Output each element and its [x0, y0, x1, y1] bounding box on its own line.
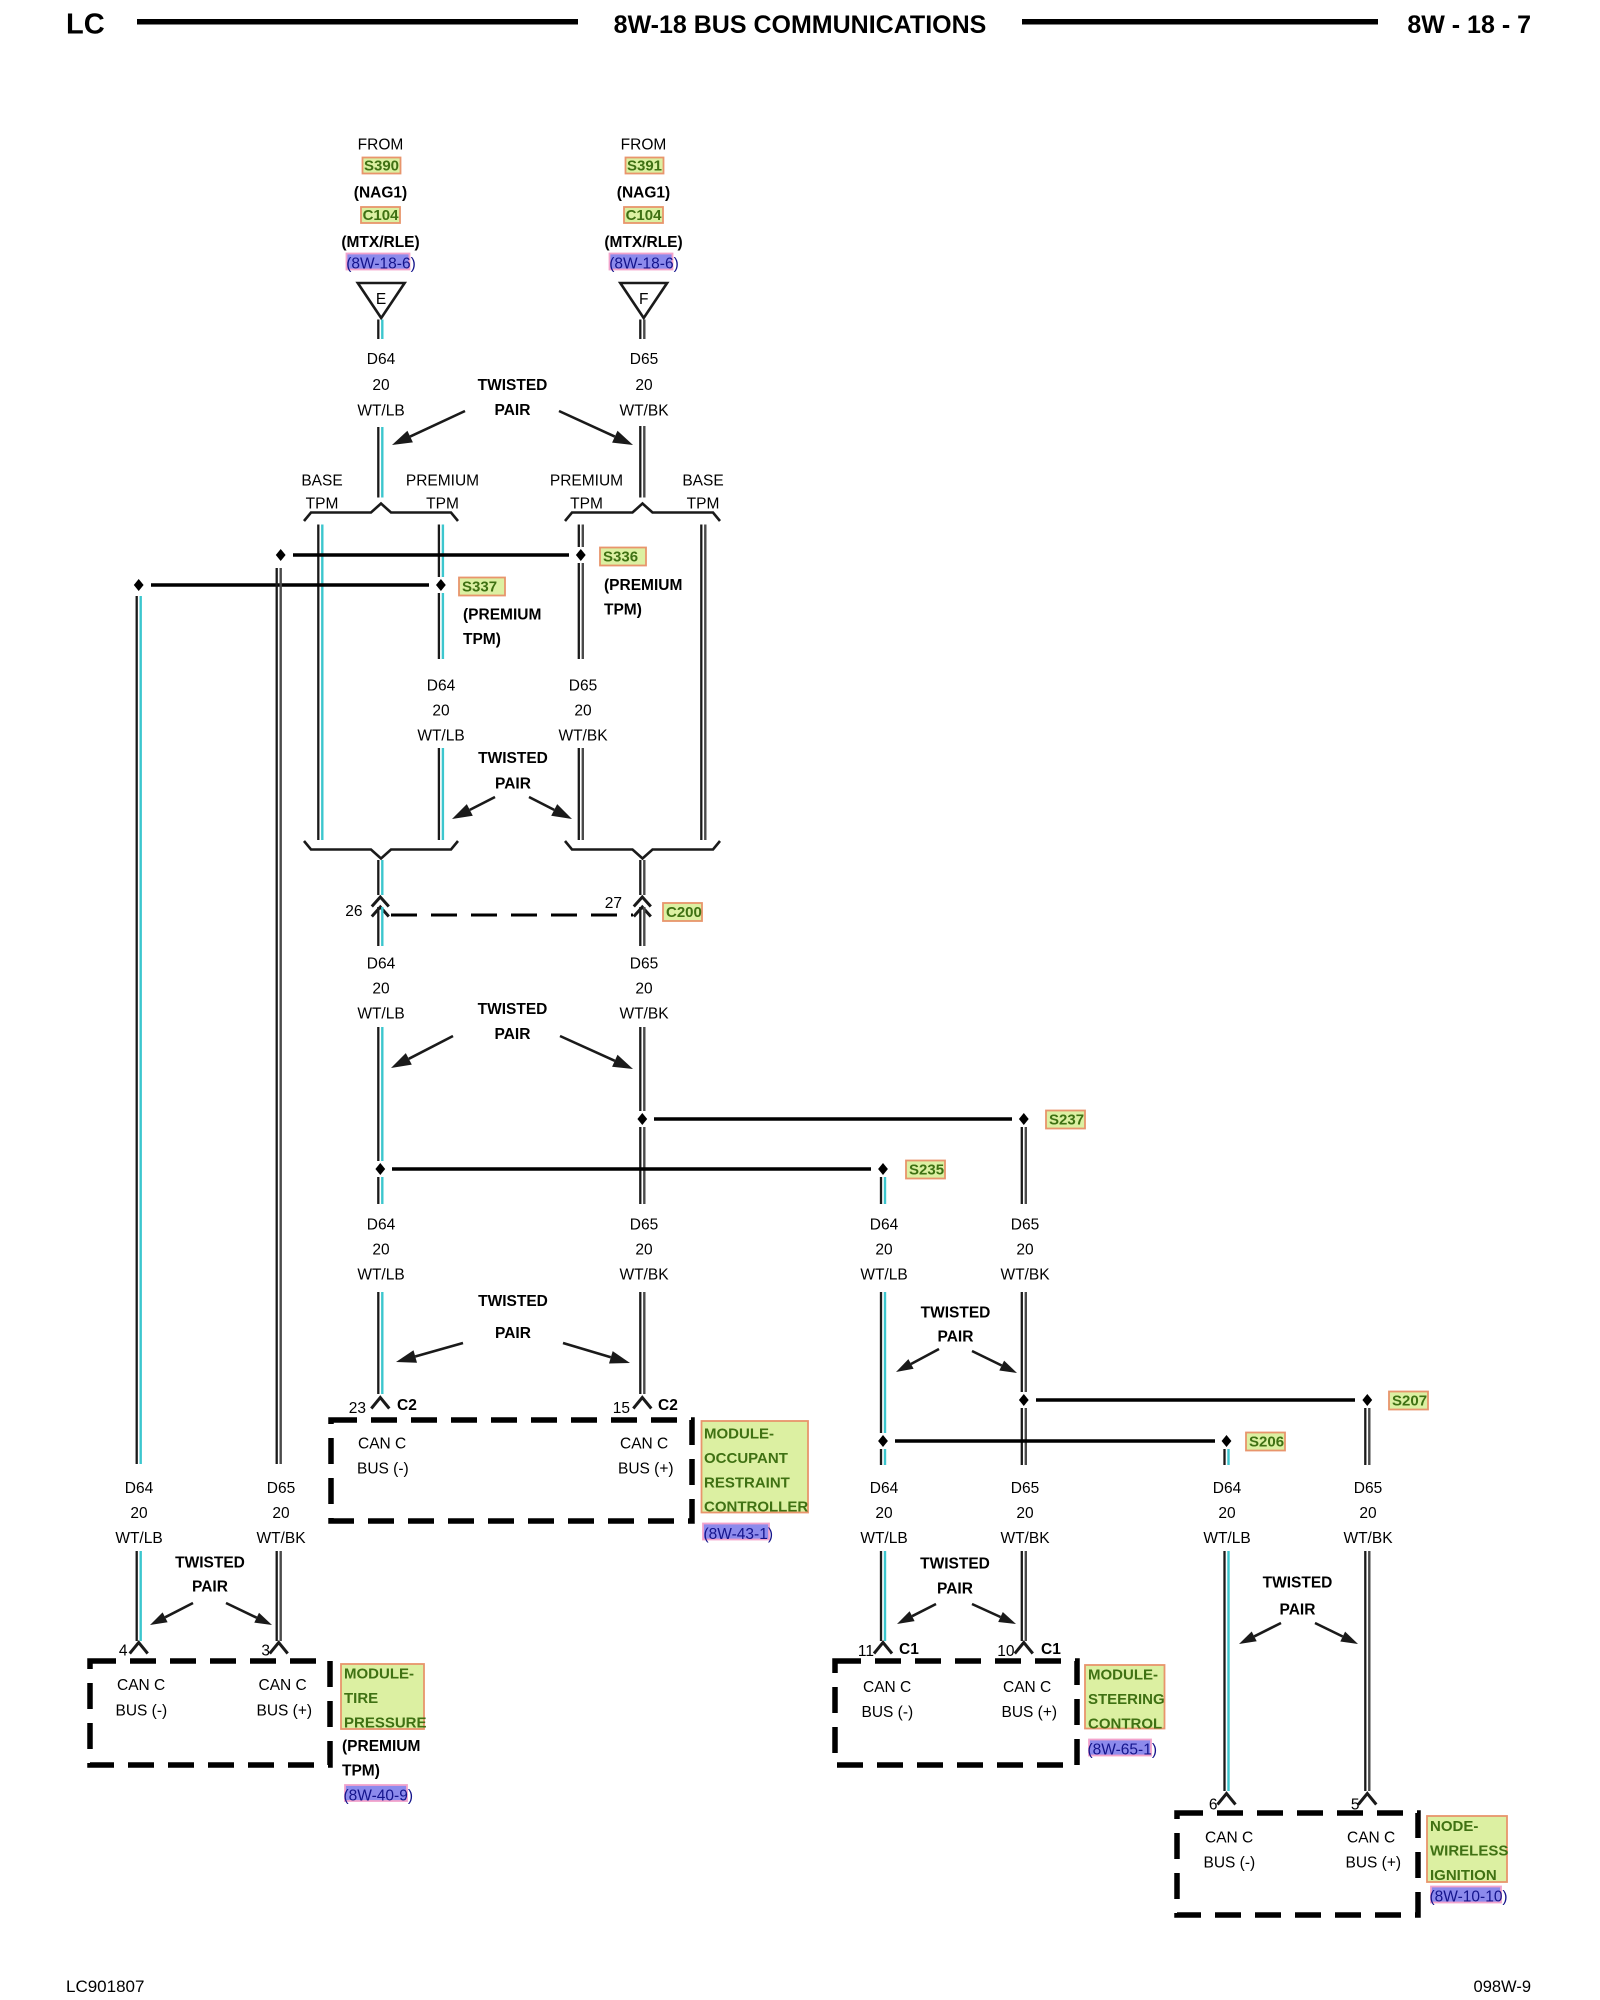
svg-text:D65: D65	[630, 1217, 658, 1234]
svg-text:WT/BK: WT/BK	[1343, 1530, 1393, 1547]
svg-text:23: 23	[349, 1400, 366, 1417]
splice dot S207 right end	[1362, 1394, 1372, 1406]
wire label D65 20 WT/BK (tire)	[256, 1480, 306, 1547]
splice dot S337 on premium wire	[436, 579, 446, 591]
svg-text:S207: S207	[1392, 1393, 1427, 1410]
svg-text:D65: D65	[630, 351, 658, 368]
svg-text:PRESSURE: PRESSURE	[344, 1714, 427, 1731]
splice dot S237 right end	[1019, 1113, 1029, 1125]
svg-text:20: 20	[1016, 1505, 1034, 1522]
pin 23 terminal	[371, 1398, 389, 1409]
twisted pair arrow 3 right	[560, 1036, 633, 1069]
wire D65 stub below triangle F	[640, 320, 644, 340]
svg-text:D65: D65	[1011, 1480, 1039, 1497]
svg-text:TPM): TPM)	[604, 602, 642, 619]
svg-text:(PREMIUM: (PREMIUM	[463, 607, 541, 624]
svg-text:BUS (-): BUS (-)	[357, 1461, 409, 1478]
svg-text:BASE: BASE	[301, 473, 342, 490]
module box steering control	[835, 1661, 1077, 1765]
splice line S237	[654, 1117, 1012, 1121]
module box tire pressure	[90, 1661, 330, 1765]
wire premium TPM right (D65 branch)	[579, 525, 583, 841]
svg-text:S337: S337	[462, 579, 497, 596]
svg-text:WT/BK: WT/BK	[256, 1530, 306, 1547]
svg-text:TPM: TPM	[306, 496, 339, 513]
svg-text:WT/LB: WT/LB	[357, 1006, 404, 1023]
svg-text:WT/LB: WT/LB	[357, 403, 404, 420]
splice line S235	[392, 1167, 871, 1171]
wire label D65 20 WT/BK (occupant)	[619, 1217, 669, 1284]
svg-text:BUS (-): BUS (-)	[862, 1704, 914, 1721]
brace TPM merge left	[304, 841, 458, 859]
svg-text:TWISTED: TWISTED	[478, 1001, 548, 1018]
svg-text:WT/BK: WT/BK	[1000, 1267, 1050, 1284]
wire label D64 20 WT/LB (steering)	[860, 1217, 907, 1284]
wire label D65 20 WT/BK (top)	[619, 351, 669, 420]
svg-text:C104: C104	[363, 207, 400, 224]
svg-text:WT/LB: WT/LB	[417, 728, 464, 745]
svg-text:TIRE: TIRE	[344, 1690, 378, 1707]
svg-text:(PREMIUM: (PREMIUM	[342, 1738, 420, 1755]
svg-text:(NAG1): (NAG1)	[354, 185, 407, 202]
svg-text:(MTX/RLE): (MTX/RLE)	[341, 234, 419, 251]
wire label D65 20 WT/BK (wireless)	[1343, 1480, 1393, 1547]
wire D64 segment to pin 23	[378, 1292, 382, 1394]
svg-text:S390: S390	[364, 158, 399, 175]
page ref label (8W-18-6) (E)	[346, 254, 415, 273]
svg-text:STEERING: STEERING	[1088, 1691, 1165, 1708]
svg-text:20: 20	[372, 377, 390, 394]
svg-text:BUS (-): BUS (-)	[116, 1703, 168, 1720]
svg-text:PAIR: PAIR	[495, 402, 531, 419]
wire D64 segment below C200	[378, 907, 382, 946]
splice dot S206 right end	[1222, 1435, 1232, 1447]
svg-text:BUS (+): BUS (+)	[257, 1703, 313, 1720]
svg-text:20: 20	[372, 1242, 390, 1259]
svg-text:BUS (+): BUS (+)	[1002, 1704, 1058, 1721]
svg-text:11: 11	[858, 1643, 874, 1660]
pin 3 terminal	[270, 1643, 288, 1654]
svg-text:RESTRAINT: RESTRAINT	[704, 1474, 790, 1491]
splice dot S206 on D64 steering wire	[878, 1435, 888, 1447]
wire D65 segment to TPM brace	[640, 426, 644, 498]
pin 4 terminal	[130, 1643, 148, 1654]
svg-text:TPM: TPM	[687, 496, 720, 513]
off-page connector triangle E	[358, 283, 405, 318]
svg-text:D64: D64	[870, 1217, 899, 1234]
svg-text:TWISTED: TWISTED	[478, 1293, 548, 1310]
splice line S206	[895, 1439, 1215, 1443]
svg-text:WT/BK: WT/BK	[619, 403, 669, 420]
svg-text:C2: C2	[397, 1397, 417, 1414]
svg-text:C2: C2	[658, 1397, 678, 1414]
svg-text:20: 20	[635, 377, 653, 394]
connector label C104 (F)	[624, 207, 663, 224]
wire D65 wireless segment below S207	[1365, 1408, 1369, 1465]
svg-text:WT/LB: WT/LB	[115, 1530, 162, 1547]
svg-text:20: 20	[1359, 1505, 1377, 1522]
svg-text:PAIR: PAIR	[495, 1026, 531, 1043]
svg-text:(8W-65-1): (8W-65-1)	[1088, 1742, 1157, 1759]
wire label D64 20 WT/LB (steer low)	[860, 1480, 907, 1547]
svg-text:LC901807: LC901807	[66, 1977, 144, 1996]
svg-text:20: 20	[1016, 1242, 1034, 1259]
svg-text:BASE: BASE	[682, 473, 723, 490]
svg-text:PAIR: PAIR	[1280, 1602, 1316, 1619]
svg-text:WT/BK: WT/BK	[619, 1006, 669, 1023]
splice dot S235 on D64 center wire	[375, 1163, 385, 1175]
svg-text:4: 4	[119, 1643, 128, 1660]
off-page connector triangle F	[620, 283, 667, 318]
wire D65 segment to S237	[640, 1027, 644, 1204]
label BASE TPM right	[682, 473, 723, 513]
svg-text:10: 10	[997, 1643, 1015, 1660]
svg-text:D64: D64	[367, 956, 396, 973]
svg-text:S206: S206	[1249, 1434, 1284, 1451]
pin 5 terminal	[1358, 1794, 1376, 1805]
brace TPM split right	[565, 504, 720, 522]
wire label D65 20 WT/BK (steer low)	[1000, 1480, 1050, 1547]
svg-text:20: 20	[432, 703, 450, 720]
svg-text:WT/BK: WT/BK	[619, 1267, 669, 1284]
svg-text:NODE-: NODE-	[1430, 1818, 1478, 1835]
svg-text:WIRELESS: WIRELESS	[1430, 1842, 1508, 1859]
splice dot S207 on D65 steering wire	[1019, 1394, 1029, 1406]
svg-text:20: 20	[875, 1505, 893, 1522]
twisted pair arrow 5 left	[896, 1349, 939, 1372]
twisted pair arrow 7 left	[897, 1604, 936, 1624]
twisted pair arrow 1 left	[392, 411, 465, 445]
splice label S207	[1389, 1392, 1428, 1410]
svg-text:(PREMIUM: (PREMIUM	[604, 577, 682, 594]
svg-text:PAIR: PAIR	[192, 1579, 228, 1596]
svg-text:20: 20	[875, 1242, 893, 1259]
svg-text:S391: S391	[627, 158, 662, 175]
svg-text:(8W-10-10): (8W-10-10)	[1430, 1889, 1508, 1906]
connector C200 pin 26 terminals	[372, 897, 389, 917]
wire D65 wireless to pin 5	[1365, 1551, 1369, 1791]
svg-text:PAIR: PAIR	[495, 1325, 531, 1342]
twisted pair arrow 6 right	[226, 1603, 272, 1625]
svg-text:BUS (-): BUS (-)	[1204, 1855, 1256, 1872]
svg-text:(NAG1): (NAG1)	[617, 185, 670, 202]
svg-text:20: 20	[372, 981, 390, 998]
svg-text:D65: D65	[630, 956, 658, 973]
wire premium TPM left (D64 branch)	[439, 525, 443, 841]
wire label D65 20 WT/BK (below C200)	[619, 956, 669, 1023]
module name steering control	[1085, 1665, 1165, 1732]
splice dot S337 left end	[134, 579, 144, 591]
wire base TPM right (D65 branch)	[701, 525, 705, 841]
page ref label (8W-65-1)	[1088, 1740, 1157, 1759]
svg-text:D64: D64	[367, 351, 396, 368]
svg-text:C1: C1	[1041, 1641, 1061, 1658]
svg-text:PREMIUM: PREMIUM	[550, 473, 623, 490]
svg-text:20: 20	[272, 1505, 290, 1522]
svg-text:MODULE-: MODULE-	[704, 1426, 774, 1443]
svg-text:LC: LC	[66, 9, 105, 41]
page ref label (8W-18-6) (F)	[609, 254, 678, 273]
wire label D64 20 WT/LB (premium left)	[417, 678, 464, 745]
wire D64 to tire pressure module	[137, 596, 141, 1641]
svg-text:CAN C: CAN C	[259, 1677, 307, 1694]
wire D64 stub below triangle E	[378, 320, 382, 340]
svg-text:(8W-43-1): (8W-43-1)	[704, 1526, 773, 1543]
splice label S336	[600, 548, 646, 566]
svg-text:8W-18 BUS COMMUNICATIONS: 8W-18 BUS COMMUNICATIONS	[614, 11, 987, 39]
wire label D64 20 WT/LB (wireless)	[1203, 1480, 1250, 1547]
splice dot S235 right end	[878, 1163, 888, 1175]
module name tire pressure	[341, 1664, 427, 1731]
svg-text:WT/LB: WT/LB	[357, 1267, 404, 1284]
svg-text:CONTROLLER: CONTROLLER	[704, 1499, 808, 1516]
header rule right	[1022, 19, 1378, 25]
module box occupant restraint controller	[331, 1420, 692, 1521]
wire D65 steering to pin 10	[1022, 1551, 1026, 1641]
twisted pair arrow 4 right	[563, 1343, 630, 1364]
svg-text:D64: D64	[870, 1480, 899, 1497]
svg-text:D64: D64	[125, 1480, 154, 1497]
splice line S337	[151, 583, 429, 587]
svg-text:D65: D65	[267, 1480, 295, 1497]
svg-text:S235: S235	[909, 1162, 944, 1179]
twisted pair arrow 7 right	[972, 1604, 1016, 1624]
svg-text:26: 26	[345, 903, 362, 920]
wire D65 to tire pressure module	[277, 568, 281, 1641]
svg-text:CAN C: CAN C	[863, 1679, 911, 1696]
label PREMIUM TPM right	[550, 473, 623, 513]
wire D64 segment above C200	[378, 860, 382, 895]
svg-text:WT/LB: WT/LB	[860, 1530, 907, 1547]
splice dot S336 on premium wire	[576, 549, 586, 561]
wire D64 steering to pin 11	[881, 1551, 885, 1641]
page ref label (8W-10-10)	[1430, 1887, 1508, 1906]
twisted pair arrow 3 left	[391, 1036, 453, 1068]
twisted pair arrow 8 right	[1315, 1623, 1358, 1644]
svg-text:D64: D64	[367, 1217, 396, 1234]
splice line S336	[293, 553, 569, 557]
wire D65 segment below C200	[640, 907, 644, 946]
svg-text:IGNITION: IGNITION	[1430, 1867, 1497, 1884]
svg-text:CAN C: CAN C	[1347, 1830, 1395, 1847]
svg-text:PAIR: PAIR	[937, 1581, 973, 1598]
svg-text:S237: S237	[1049, 1112, 1084, 1129]
twisted pair arrow 1 right	[559, 411, 633, 445]
svg-text:20: 20	[130, 1505, 148, 1522]
svg-text:D64: D64	[427, 678, 456, 695]
wire label D64 20 WT/LB (occupant)	[357, 1217, 404, 1284]
svg-text:3: 3	[261, 1643, 270, 1660]
svg-text:WT/BK: WT/BK	[558, 728, 608, 745]
svg-text:CAN C: CAN C	[1003, 1679, 1051, 1696]
splice label S391	[626, 158, 664, 175]
svg-text:TPM: TPM	[570, 496, 603, 513]
splice label S206	[1246, 1433, 1285, 1451]
svg-text:C200: C200	[666, 904, 702, 921]
brace TPM split left	[304, 504, 458, 522]
splice label S390	[363, 158, 401, 175]
svg-text:098W-9: 098W-9	[1474, 1978, 1531, 1996]
pin 10 terminal	[1015, 1643, 1033, 1654]
wire D65 segment to pin 15	[640, 1292, 644, 1394]
wire base TPM left (D64 branch)	[318, 525, 322, 841]
svg-text:BUS (+): BUS (+)	[1346, 1855, 1402, 1872]
svg-text:(8W-40-9): (8W-40-9)	[344, 1788, 413, 1805]
twisted pair arrow 8 left	[1239, 1623, 1281, 1644]
pin 6 terminal	[1218, 1794, 1236, 1805]
splice label S337	[459, 578, 505, 596]
svg-text:D65: D65	[1354, 1480, 1382, 1497]
splice line S207	[1036, 1398, 1355, 1402]
svg-text:C1: C1	[899, 1641, 919, 1658]
svg-text:E: E	[376, 291, 386, 308]
wire label D64 20 WT/LB (below C200)	[357, 956, 404, 1023]
twisted pair arrow 2 left	[452, 797, 495, 819]
svg-text:TWISTED: TWISTED	[921, 1305, 991, 1322]
svg-text:15: 15	[613, 1400, 630, 1417]
svg-text:(8W-18-6): (8W-18-6)	[609, 256, 678, 273]
wire D64 steering branch upper	[881, 1177, 885, 1465]
svg-text:D65: D65	[1011, 1217, 1039, 1234]
wire D65 steering branch upper	[1022, 1127, 1026, 1465]
svg-text:TWISTED: TWISTED	[478, 377, 548, 394]
wire D64 segment to TPM brace	[378, 427, 382, 498]
brace TPM merge right	[565, 841, 720, 859]
svg-text:6: 6	[1209, 1797, 1218, 1814]
module box wireless ignition node	[1177, 1813, 1418, 1915]
node name wireless ignition	[1427, 1816, 1508, 1884]
svg-text:PAIR: PAIR	[495, 776, 531, 793]
svg-text:(MTX/RLE): (MTX/RLE)	[604, 234, 682, 251]
splice dot S237 on D65 center wire	[637, 1113, 647, 1125]
svg-text:CAN C: CAN C	[358, 1436, 406, 1453]
svg-text:CAN C: CAN C	[1205, 1830, 1253, 1847]
svg-text:TPM): TPM)	[342, 1763, 380, 1780]
svg-text:TWISTED: TWISTED	[478, 750, 548, 767]
wire label D64 20 WT/LB (top)	[357, 351, 404, 420]
svg-text:WT/LB: WT/LB	[860, 1267, 907, 1284]
splice label S237	[1046, 1111, 1085, 1129]
connector label C200	[663, 903, 702, 921]
svg-text:WT/LB: WT/LB	[1203, 1530, 1250, 1547]
svg-text:MODULE-: MODULE-	[344, 1666, 414, 1683]
svg-text:D65: D65	[569, 678, 597, 695]
page ref label (8W-40-9)	[344, 1785, 413, 1805]
header rule left	[137, 19, 578, 25]
splice label S235	[906, 1161, 945, 1179]
label BASE TPM left	[301, 473, 342, 513]
twisted pair arrow 5 right	[972, 1351, 1017, 1373]
splice dot S336 left end	[276, 549, 286, 561]
svg-text:TWISTED: TWISTED	[175, 1555, 245, 1572]
svg-text:C104: C104	[626, 207, 663, 224]
svg-text:WT/BK: WT/BK	[1000, 1530, 1050, 1547]
connector C200 pin 27 terminals	[634, 897, 651, 917]
wire D64 wireless stub below S206	[1225, 1449, 1229, 1465]
twisted pair arrow 2 right	[529, 797, 572, 819]
svg-text:20: 20	[635, 1242, 653, 1259]
svg-text:MODULE-: MODULE-	[1088, 1667, 1158, 1684]
svg-text:PAIR: PAIR	[938, 1329, 974, 1346]
svg-text:CONTROL: CONTROL	[1088, 1715, 1162, 1732]
wire label D64 20 WT/LB (tire)	[115, 1480, 162, 1547]
module name occupant restraint controller	[702, 1421, 809, 1516]
svg-text:TPM: TPM	[426, 496, 459, 513]
svg-text:CAN C: CAN C	[117, 1677, 165, 1694]
twisted pair arrow 6 left	[150, 1603, 193, 1625]
pin 15 terminal	[633, 1398, 651, 1409]
svg-text:TPM): TPM)	[463, 631, 501, 648]
svg-text:FROM: FROM	[621, 137, 667, 154]
svg-text:PREMIUM: PREMIUM	[406, 473, 479, 490]
label PREMIUM TPM left	[406, 473, 479, 513]
svg-text:TWISTED: TWISTED	[1263, 1575, 1333, 1592]
svg-text:8W - 18 - 7: 8W - 18 - 7	[1407, 11, 1531, 39]
wire label D65 20 WT/BK (premium right)	[558, 678, 608, 745]
wire D64 wireless to pin 6	[1225, 1551, 1229, 1791]
svg-text:20: 20	[1218, 1505, 1236, 1522]
svg-text:(8W-18-6): (8W-18-6)	[346, 256, 415, 273]
connector label C104 (E)	[361, 207, 400, 224]
wire D64 segment to S235	[378, 1027, 382, 1204]
svg-text:27: 27	[605, 895, 622, 912]
pin 11 terminal	[874, 1643, 892, 1654]
wire label D65 20 WT/BK (steering)	[1000, 1217, 1050, 1284]
page ref label (8W-43-1)	[703, 1524, 773, 1544]
connector C200 mating dashed line	[391, 914, 633, 917]
wire D65 segment above C200	[640, 860, 644, 895]
svg-text:S336: S336	[603, 549, 638, 566]
svg-text:F: F	[639, 291, 648, 308]
svg-text:TWISTED: TWISTED	[920, 1556, 990, 1573]
svg-text:20: 20	[635, 981, 653, 998]
twisted pair arrow 4 left	[396, 1343, 463, 1363]
svg-text:20: 20	[574, 703, 592, 720]
svg-text:FROM: FROM	[358, 137, 404, 154]
svg-text:D64: D64	[1213, 1480, 1242, 1497]
svg-text:BUS (+): BUS (+)	[618, 1461, 674, 1478]
svg-text:CAN C: CAN C	[620, 1436, 668, 1453]
svg-text:OCCUPANT: OCCUPANT	[704, 1450, 788, 1467]
